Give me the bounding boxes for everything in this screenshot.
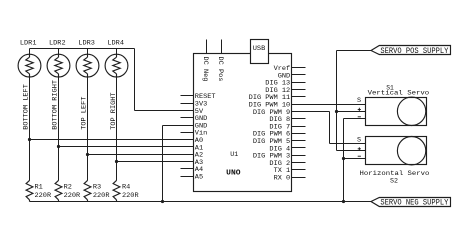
wire pos to S1 plus	[337, 111, 366, 113]
junction A0 tap	[28, 138, 31, 141]
svg-text:TOP RIGHT: TOP RIGHT	[110, 92, 118, 129]
pin DIG 2 right	[292, 162, 306, 164]
wire into 5V pin	[135, 110, 194, 112]
wire vertical to 5V pin	[134, 49, 136, 111]
wire node to A1	[59, 146, 194, 148]
svg-text:LDR2: LDR2	[49, 39, 66, 47]
wire servo pos supply vertical	[336, 51, 338, 151]
pin DIG PWM 6 right	[292, 133, 306, 135]
pin TX 1 right	[292, 169, 306, 171]
wire node to A0	[30, 139, 194, 141]
svg-text:A5: A5	[195, 174, 203, 182]
pin RESET left	[181, 95, 194, 97]
pin Vref right	[292, 67, 306, 69]
LDR LDR4	[105, 54, 128, 77]
svg-text:LDR1: LDR1	[20, 39, 37, 47]
pin DIG 12 right	[292, 89, 306, 91]
pin Vin left	[181, 132, 194, 134]
svg-text:LDR3: LDR3	[78, 39, 95, 47]
svg-text:S: S	[357, 136, 361, 144]
wire to S2 signal	[330, 143, 366, 145]
svg-text:S: S	[357, 97, 361, 105]
svg-text:R4: R4	[122, 184, 130, 192]
wire pos to S2 plus	[337, 150, 366, 152]
svg-text:R3: R3	[93, 184, 101, 192]
pin GND left	[181, 125, 194, 127]
pin DIG PWM 5 right	[292, 140, 306, 142]
svg-text:BOTTOM RIGHT: BOTTOM RIGHT	[51, 80, 59, 130]
wire into GND pin	[163, 125, 194, 127]
wire stub LDR1 top	[29, 49, 31, 55]
svg-text:LDR4: LDR4	[107, 39, 124, 47]
svg-text:BOTTOM LEFT: BOTTOM LEFT	[22, 84, 30, 130]
junction A1 tap	[57, 145, 60, 148]
wire stub LDR2 top	[58, 49, 60, 55]
wire LDR4 bottom to R4	[116, 78, 118, 181]
svg-text:S2: S2	[390, 177, 398, 185]
net label SERVO POS SUPPLY	[371, 46, 451, 56]
pin GND right	[292, 74, 306, 76]
wire ground to GND pin vertical	[162, 126, 164, 202]
pin A3 left	[181, 161, 194, 163]
pin A4 left	[181, 168, 194, 170]
wire DIG PWM 10 to S1 signal	[292, 104, 366, 106]
pin label + of S1	[358, 108, 361, 111]
svg-text:220R: 220R	[64, 192, 81, 200]
wire node to A2	[88, 154, 194, 156]
pin GND left	[181, 117, 194, 119]
servo S1 Vertical Servo	[366, 97, 427, 125]
pin DIG 7 right	[292, 126, 306, 128]
svg-text:R1: R1	[35, 184, 43, 192]
pin DIG PWM 9 right	[292, 111, 306, 113]
svg-text:220R: 220R	[35, 192, 52, 200]
svg-text:USB: USB	[253, 45, 266, 53]
pin A5 left	[181, 176, 194, 178]
svg-text:DC Pos: DC Pos	[216, 57, 224, 82]
pin DIG 8 right	[292, 118, 306, 120]
wire neg to S2 minus	[344, 158, 366, 160]
pin 5V left	[181, 110, 194, 112]
svg-text:DC Neg: DC Neg	[201, 57, 209, 82]
op-amp U1 Arduino UNO body	[194, 54, 292, 192]
pin label - of S1	[358, 116, 361, 118]
svg-text:220R: 220R	[93, 192, 110, 200]
pin A1 left	[181, 146, 194, 148]
net label SERVO NEG SUPPLY	[371, 198, 451, 208]
wire LDR3 bottom to R3	[87, 78, 89, 181]
wire node to A3	[117, 161, 194, 163]
junction neg supply / S2 minus	[342, 157, 345, 160]
wire servo neg supply vertical	[343, 119, 345, 202]
junction A2 tap	[86, 153, 89, 156]
resistor R4	[113, 180, 120, 199]
resistor R3	[84, 180, 91, 199]
wire stub LDR4 top	[116, 49, 118, 55]
wire stub LDR3 top	[87, 49, 89, 55]
wire neg to S1 minus	[344, 118, 366, 120]
junction pos supply / S1 plus	[335, 110, 338, 113]
pin label - of S2	[358, 155, 361, 157]
svg-text:Vertical Servo: Vertical Servo	[368, 89, 430, 97]
pin DIG 13 right	[292, 82, 306, 84]
svg-text:U1: U1	[230, 151, 238, 159]
pin label + of S2	[358, 147, 361, 150]
pin DIG PWM 3 right	[292, 155, 306, 157]
wire DIG PWM 9 vertical	[329, 112, 331, 144]
wire ground bus	[30, 201, 372, 203]
USB connector box	[251, 40, 269, 64]
junction neg supply / ground bus	[342, 200, 345, 203]
LDR LDR3	[76, 54, 99, 77]
resistor R1	[26, 180, 33, 199]
svg-text:TOP LEFT: TOP LEFT	[81, 97, 89, 130]
svg-text:UNO: UNO	[226, 169, 241, 177]
junction ground bus / GND wire	[161, 200, 164, 203]
pin DC Neg top	[206, 40, 208, 54]
svg-text:SERVO POS SUPPLY: SERVO POS SUPPLY	[380, 47, 448, 56]
pin DIG PWM 11 right	[292, 96, 306, 98]
svg-text:RX 0: RX 0	[274, 175, 291, 183]
pin DC Pos top	[221, 40, 223, 54]
LDR LDR1	[18, 54, 41, 77]
wire LDR2 bottom to R2	[58, 78, 60, 181]
pin 3V3 left	[181, 103, 194, 105]
resistor R2	[55, 180, 62, 199]
svg-text:SERVO NEG SUPPLY: SERVO NEG SUPPLY	[380, 199, 448, 208]
pin A2 left	[181, 154, 194, 156]
wire LDR top bus to 5V	[30, 48, 135, 50]
junction A3 tap	[115, 160, 118, 163]
svg-text:220R: 220R	[122, 192, 139, 200]
pin A0 left	[181, 139, 194, 141]
wire LDR1 bottom to R1	[29, 78, 31, 181]
servo S2 Horizontal Servo	[366, 137, 427, 165]
pin RX 0 right	[292, 177, 306, 179]
svg-text:R2: R2	[64, 184, 72, 192]
LDR LDR2	[47, 54, 70, 77]
pin DIG 4 right	[292, 147, 306, 149]
wire servo pos supply horizontal	[337, 50, 372, 52]
wire DIG PWM 9 out	[292, 111, 330, 113]
pin DIG PWM 10 right	[292, 104, 306, 106]
